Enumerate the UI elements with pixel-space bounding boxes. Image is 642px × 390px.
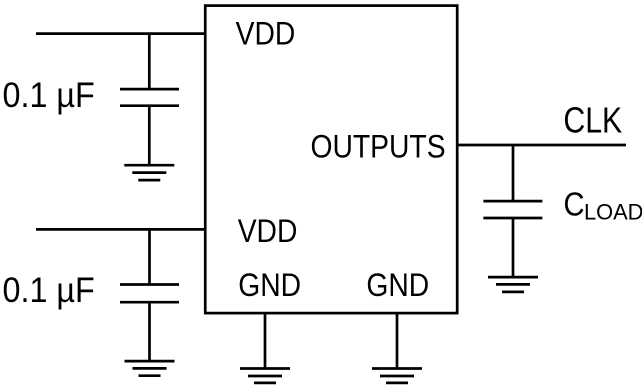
svg-text:OUTPUTS: OUTPUTS (311, 129, 446, 165)
svg-text:0.1 µF: 0.1 µF (3, 75, 95, 115)
svg-text:0.1 µF: 0.1 µF (3, 271, 95, 311)
svg-text:C: C (564, 186, 585, 223)
svg-text:VDD: VDD (238, 213, 298, 249)
svg-text:VDD: VDD (236, 16, 296, 52)
svg-text:GND: GND (238, 267, 301, 303)
svg-text:GND: GND (366, 267, 429, 303)
svg-text:CLK: CLK (563, 101, 622, 141)
svg-text:LOAD: LOAD (584, 199, 642, 224)
